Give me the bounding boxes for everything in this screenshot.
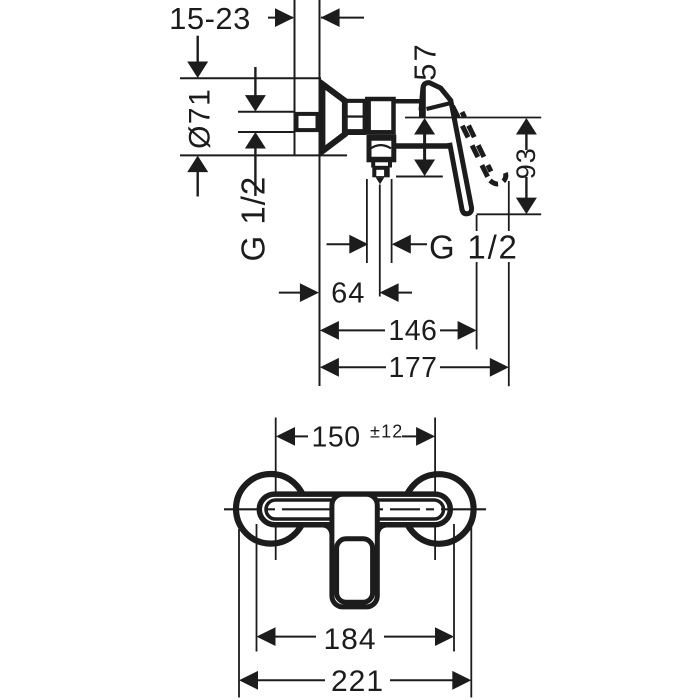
extension line 150 right <box>434 418 436 561</box>
outlet extension line right <box>391 179 393 263</box>
dimension 184 right arrow <box>435 627 454 646</box>
dimension 177 left arrow <box>320 358 339 377</box>
dimension 64 left arrow <box>279 292 301 294</box>
extension line 221 left <box>238 529 240 698</box>
lever grip dashed position line 1 <box>453 106 491 182</box>
body capsule inner <box>266 500 444 519</box>
svg-text:Ø71: Ø71 <box>184 88 217 149</box>
dimension 146 left arrow <box>320 321 339 340</box>
svg-text:93: 93 <box>511 147 541 179</box>
wall line W1 <box>294 0 296 156</box>
faucet body <box>367 99 393 132</box>
dimension 146 right arrow <box>458 321 477 340</box>
right escutcheon circle <box>404 474 474 544</box>
connection ring block <box>344 99 366 135</box>
lever pivot edge <box>419 102 424 118</box>
outlet ring <box>372 166 389 178</box>
extension line handle solid tip <box>476 215 478 349</box>
svg-text:G 1/2: G 1/2 <box>235 176 272 262</box>
left escutcheon circle <box>236 474 306 544</box>
lever grip dashed tip hook <box>490 171 506 185</box>
outlet tip <box>376 177 385 184</box>
extension line 184 right <box>453 524 455 652</box>
dimension 150 left arrow <box>276 427 295 446</box>
wall line W2 <box>319 0 321 386</box>
dimension G1/2 right right arrow <box>410 243 428 245</box>
svg-text:G 1/2: G 1/2 <box>429 228 519 265</box>
body capsule outer <box>259 494 450 525</box>
lever outline <box>421 83 472 214</box>
outlet extension line left <box>366 179 368 263</box>
handle front inner <box>337 539 373 603</box>
dimension dia71 lower arrow <box>196 172 198 197</box>
svg-text:184: 184 <box>323 623 376 656</box>
dimension 57 stem upper <box>423 86 425 118</box>
dimension 93 up arrow <box>516 118 537 135</box>
svg-text:177: 177 <box>388 352 437 384</box>
svg-text:57: 57 <box>408 42 443 80</box>
lever grip dashed position line 2 <box>462 112 491 172</box>
dimension 221 left arrow <box>239 671 258 690</box>
outlet neck <box>371 162 375 168</box>
dimension 93 down arrow <box>525 177 527 198</box>
dimension G1/2 left upper arrow <box>254 67 256 96</box>
extension line nipple top <box>238 111 294 113</box>
reference line 57/93 top <box>405 117 541 119</box>
dimension 15-23 left arrow <box>268 17 293 19</box>
dimension 184 left arrow <box>257 627 276 646</box>
dimension G1/2 left lower arrow <box>254 149 256 197</box>
outlet center extension line <box>379 185 381 297</box>
centerline dash-dot <box>224 508 486 510</box>
dimension G1/2 right label <box>427 231 518 262</box>
handle front outer <box>332 494 377 607</box>
dimension 57 down arrow <box>414 160 435 177</box>
dimension G1/2 right left arrow <box>327 243 351 245</box>
dimension 177 right arrow <box>490 358 509 377</box>
dimension 221 right arrow <box>452 671 471 690</box>
extension line bottom (dia 71 lower) <box>180 154 347 156</box>
reference line 93 bottom <box>477 213 542 215</box>
extension line nipple bottom <box>238 131 294 133</box>
dimension 57 stem middle <box>423 134 426 160</box>
dimension 177 label <box>386 354 440 380</box>
extension line handle dashed tip <box>508 181 510 386</box>
capsule-to-handle fillet left <box>324 525 332 534</box>
svg-text:221: 221 <box>331 665 384 698</box>
extension line 221 right <box>470 527 472 698</box>
svg-text:150: 150 <box>312 422 361 454</box>
dimension dia71 upper arrow <box>196 36 198 62</box>
svg-text:15-23: 15-23 <box>169 1 251 36</box>
check valve box <box>369 137 394 160</box>
extension line 150 left <box>275 418 277 561</box>
capsule-to-handle fillet right <box>378 525 386 534</box>
lever body fill <box>420 83 472 215</box>
svg-text:64: 64 <box>331 278 365 310</box>
reference line 57 bottom <box>396 176 443 178</box>
lever grip top inner line <box>427 103 451 109</box>
dimension 146 line <box>338 329 458 331</box>
extension line 184 left <box>256 524 258 652</box>
wall nipple square <box>297 114 318 130</box>
extension line top (dia 71 upper) <box>180 77 321 79</box>
cartridge cap top edge <box>396 99 422 104</box>
escutcheon cone <box>322 84 345 151</box>
dimension 64 right arrow <box>398 292 412 294</box>
cartridge cap bottom edge <box>396 143 451 149</box>
dimension 15-23 right arrow <box>321 17 364 19</box>
dimension 57 up arrow <box>414 118 435 135</box>
svg-text:146: 146 <box>388 315 437 347</box>
svg-text:±12: ±12 <box>370 422 404 442</box>
dimension 150 right arrow <box>416 427 435 446</box>
dimension 177 line <box>338 366 491 368</box>
dimension 146 label <box>385 317 440 343</box>
check valve dome arc <box>370 145 391 149</box>
